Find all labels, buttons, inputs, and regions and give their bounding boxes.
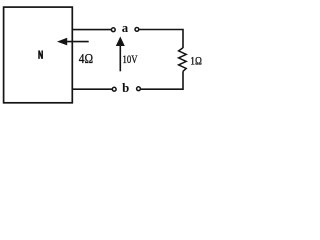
wire box to terminal a xyxy=(72,29,112,31)
svg-text:a: a xyxy=(122,21,129,35)
wire terminal a to top-right corner xyxy=(139,30,183,49)
arrow 10V voltage rise b to a xyxy=(116,37,125,72)
wire terminal b to box xyxy=(72,88,113,90)
box network N xyxy=(4,7,73,103)
resistor R 1ohm zigzag xyxy=(179,48,187,72)
svg-text:10V: 10V xyxy=(123,54,138,66)
arrow 4 ohm pointing left into network xyxy=(57,38,89,46)
svg-text:1Ω: 1Ω xyxy=(190,55,202,68)
terminal b right circle xyxy=(137,87,141,91)
wire resistor to bottom-right corner xyxy=(141,71,183,89)
label N (bold condensed) xyxy=(39,50,42,59)
svg-text:b: b xyxy=(122,81,129,95)
terminal b left circle xyxy=(112,87,116,91)
svg-text:4Ω: 4Ω xyxy=(79,51,93,66)
terminal a left circle xyxy=(111,28,115,32)
terminal a right circle xyxy=(135,28,139,32)
